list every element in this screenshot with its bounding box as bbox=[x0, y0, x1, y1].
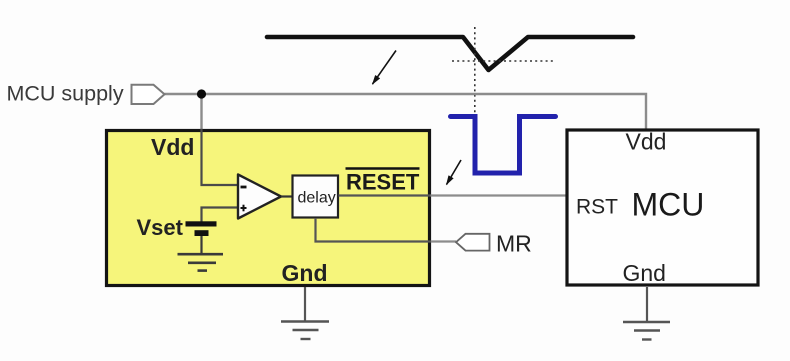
svg-text:Vdd: Vdd bbox=[626, 129, 667, 155]
wire comparator output to delay block bbox=[281, 195, 293, 197]
arrow to supply wire bbox=[373, 51, 397, 85]
battery Vset reference bbox=[186, 221, 217, 236]
pin label Gnd (supervisor) bbox=[282, 260, 328, 286]
junction dot bbox=[197, 89, 206, 98]
label Vset bbox=[137, 215, 184, 240]
pin label Vdd (supervisor) bbox=[151, 134, 194, 160]
wire RESET to MCU RST bbox=[431, 194, 566, 196]
delay block bbox=[293, 176, 339, 218]
net label RESET (active low, overline) bbox=[346, 169, 420, 195]
arrow to RESET wire bbox=[447, 160, 462, 185]
label MCU bbox=[632, 187, 705, 223]
svg-text:RST: RST bbox=[576, 196, 618, 219]
reset pulse waveform (blue) bbox=[451, 117, 556, 174]
supervisor box U1 (yellow) bbox=[107, 131, 430, 286]
svg-text:Gnd: Gnd bbox=[623, 260, 666, 286]
wire Vset to comparator non-inverting input bbox=[202, 208, 239, 222]
wire supervisor Vdd internal to comparator inverting input bbox=[202, 129, 239, 185]
ground (supervisor) bbox=[281, 322, 329, 340]
comparator U2 (op-amp) bbox=[238, 175, 281, 219]
pin label Vdd (MCU) bbox=[626, 129, 667, 155]
wire MR from delay block bbox=[316, 218, 432, 242]
wire MCU supply net bbox=[165, 94, 647, 129]
label MR bbox=[496, 231, 532, 257]
svg-text:delay: delay bbox=[298, 190, 336, 207]
wire MR external bbox=[431, 240, 456, 242]
svg-text:RESET: RESET bbox=[346, 170, 420, 195]
svg-text:Vdd: Vdd bbox=[151, 134, 194, 160]
wire MCU Gnd to ground bbox=[646, 287, 648, 322]
svg-text:MCU: MCU bbox=[632, 187, 705, 223]
dotted time line (vertical) bbox=[474, 27, 476, 113]
port tag MR bbox=[456, 234, 490, 251]
wire RESET inside supervisor bbox=[339, 194, 431, 196]
wire battery to ground bbox=[200, 236, 202, 253]
wire supply drop to supervisor Vdd bbox=[200, 94, 202, 129]
port tag MCU supply bbox=[132, 85, 165, 104]
ground (MCU) bbox=[623, 322, 670, 340]
label MCU supply bbox=[7, 82, 124, 106]
dotted threshold line (horizontal) bbox=[452, 60, 553, 62]
pin label Gnd (MCU) bbox=[623, 260, 666, 286]
ground (battery reference) bbox=[178, 254, 224, 270]
svg-text:MR: MR bbox=[496, 231, 532, 257]
wire supervisor Gnd to ground bbox=[304, 287, 306, 321]
pin label RST bbox=[576, 196, 618, 219]
svg-text:Gnd: Gnd bbox=[282, 260, 328, 286]
svg-text:MCU supply: MCU supply bbox=[7, 82, 124, 106]
MCU box bbox=[567, 130, 758, 285]
svg-text:Vset: Vset bbox=[137, 215, 184, 240]
supply voltage waveform (black, with brownout dip) bbox=[267, 37, 633, 70]
